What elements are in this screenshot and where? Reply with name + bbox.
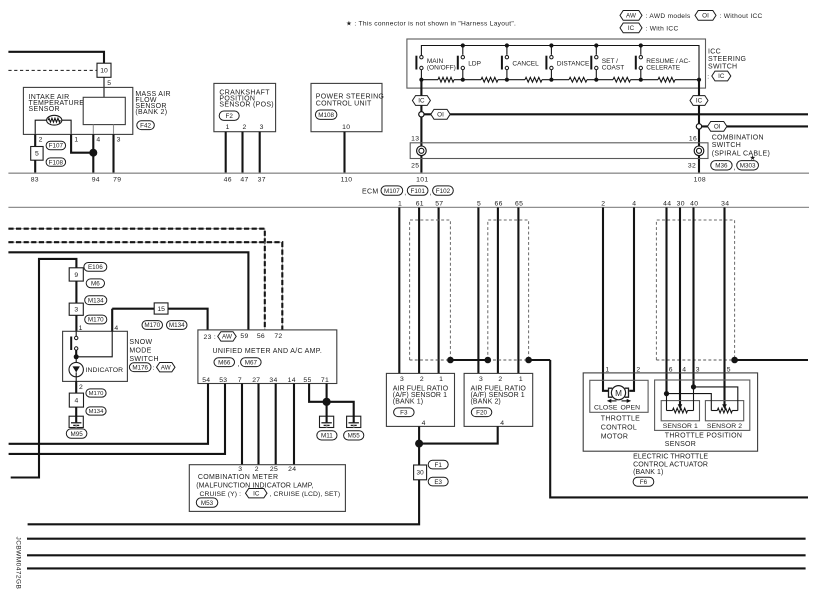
solid net segment to right edge bbox=[735, 359, 808, 361]
svg-text:SENSOR: SENSOR bbox=[665, 441, 696, 448]
svg-text:23 :: 23 : bbox=[204, 334, 217, 341]
wire meter 53 left bbox=[9, 384, 225, 454]
svg-text:4: 4 bbox=[500, 420, 504, 427]
svg-text:M108: M108 bbox=[318, 112, 334, 119]
svg-text:M134: M134 bbox=[169, 322, 185, 329]
spiral symbol right bbox=[694, 146, 704, 156]
svg-text::: : bbox=[153, 365, 155, 372]
air fuel ratio sensor bank2 box bbox=[464, 373, 533, 426]
svg-text:INDICATOR: INDICATOR bbox=[86, 367, 124, 374]
wire connector 4 to ground bbox=[75, 407, 77, 416]
wire meter 34 to combination meter 25 bbox=[275, 384, 277, 465]
svg-text:,: , bbox=[733, 164, 735, 171]
wire ECM 61 to AF1 pin 2 bbox=[418, 207, 420, 373]
snow junction bbox=[74, 354, 79, 359]
connector M66 bbox=[214, 358, 235, 367]
svg-text:M170: M170 bbox=[88, 317, 104, 324]
snow mode switch box bbox=[63, 331, 128, 381]
pot2 right tap bbox=[694, 387, 738, 411]
svg-text:M170: M170 bbox=[89, 391, 104, 397]
wire ICC resume to ECM 108 bbox=[698, 80, 700, 174]
wire ICC main to ECM 101 bbox=[420, 80, 422, 174]
switch MAIN bbox=[415, 56, 417, 70]
wire thermistor left to pin 2 bbox=[35, 120, 46, 134]
unified meter box bbox=[198, 330, 337, 384]
pot1 resistor bbox=[667, 410, 673, 412]
wire without-ICC row 2 bbox=[701, 125, 808, 127]
svg-text:4: 4 bbox=[422, 420, 426, 427]
svg-text:4: 4 bbox=[632, 201, 636, 208]
svg-text:25: 25 bbox=[270, 466, 278, 473]
svg-text:IC: IC bbox=[696, 98, 703, 105]
svg-text:THROTTLE: THROTTLE bbox=[601, 415, 640, 422]
svg-text:54: 54 bbox=[202, 377, 210, 384]
ground junction bbox=[323, 398, 331, 406]
connector M134 b bbox=[86, 407, 106, 415]
svg-text:CONTROL: CONTROL bbox=[601, 424, 637, 431]
ground M95 bbox=[69, 416, 83, 427]
svg-text:MODE: MODE bbox=[129, 348, 151, 355]
svg-text:CRUISE (Y) :: CRUISE (Y) : bbox=[200, 491, 242, 498]
svg-text:: With ICC: : With ICC bbox=[646, 26, 679, 33]
svg-text:F102: F102 bbox=[436, 188, 451, 195]
solid net segment a bbox=[450, 359, 487, 361]
svg-text:POWER STEERING: POWER STEERING bbox=[316, 94, 384, 101]
legend OI hexagon bbox=[695, 11, 716, 21]
svg-text:M55: M55 bbox=[348, 433, 361, 440]
connector F107 bbox=[46, 141, 66, 149]
svg-text:(BANK 2): (BANK 2) bbox=[471, 399, 501, 406]
motor close arrow bbox=[611, 400, 617, 402]
svg-text:72: 72 bbox=[274, 333, 282, 340]
svg-text:32: 32 bbox=[688, 162, 696, 169]
wire net descender bbox=[550, 360, 808, 497]
connector M303 bbox=[737, 161, 759, 170]
svg-text:ELECTRIC THROTTLE: ELECTRIC THROTTLE bbox=[633, 453, 708, 460]
svg-text:7: 7 bbox=[238, 377, 242, 384]
connector F108 bbox=[46, 158, 66, 166]
wire snow pin1 to contact bbox=[75, 331, 77, 336]
net junction a bbox=[447, 357, 454, 364]
junction pins 1-4 bbox=[89, 149, 97, 157]
connector M36 bbox=[711, 161, 732, 170]
connector 15 bbox=[154, 303, 168, 314]
motor symbol bbox=[611, 386, 625, 400]
svg-text:1: 1 bbox=[226, 124, 230, 131]
svg-text:M176: M176 bbox=[132, 364, 148, 371]
wire ECM 57 to AF1 pin 1 bbox=[438, 207, 440, 373]
svg-text:SNOW: SNOW bbox=[129, 339, 152, 346]
connector M176 with AW bbox=[129, 363, 151, 372]
svg-text:M170: M170 bbox=[144, 322, 160, 329]
connector OI hexagon left bbox=[431, 109, 450, 119]
svg-text:3: 3 bbox=[238, 466, 242, 473]
connector M107 bbox=[381, 186, 403, 195]
svg-text:F6: F6 bbox=[640, 479, 648, 486]
connector 10 bbox=[97, 63, 111, 77]
connector M134 a bbox=[85, 296, 107, 305]
connector F2 bbox=[219, 111, 239, 120]
svg-text:OPEN: OPEN bbox=[620, 404, 640, 411]
connector 9 bbox=[69, 268, 83, 281]
wire connector 5 to ECM 83 bbox=[34, 160, 36, 173]
electric throttle control actuator box bbox=[583, 373, 757, 451]
svg-text:SENSOR: SENSOR bbox=[29, 106, 60, 113]
connector F42 bbox=[137, 121, 155, 130]
svg-text:9: 9 bbox=[74, 272, 78, 279]
ground M11 bbox=[320, 416, 334, 427]
svg-text:59: 59 bbox=[240, 333, 248, 340]
connector F101 bbox=[407, 186, 428, 195]
svg-text:CONTROL ACTUATOR: CONTROL ACTUATOR bbox=[633, 462, 708, 469]
ICC bottom rail bbox=[421, 79, 438, 81]
connector M67 bbox=[241, 358, 262, 367]
svg-text:M95: M95 bbox=[70, 431, 83, 438]
svg-text:SENSOR 2: SENSOR 2 bbox=[707, 423, 742, 430]
svg-text:15: 15 bbox=[157, 306, 165, 313]
bottom continuation wire 2 bbox=[27, 554, 806, 556]
svg-text:110: 110 bbox=[341, 177, 353, 184]
svg-text:71: 71 bbox=[321, 377, 329, 384]
dashed net segment b bbox=[488, 359, 529, 361]
junction open circle left bbox=[419, 112, 424, 117]
wire branch to ground M55 bbox=[327, 402, 354, 416]
connector F3 bbox=[394, 408, 415, 417]
svg-text:AW: AW bbox=[161, 364, 171, 371]
svg-text:M107: M107 bbox=[384, 188, 400, 195]
svg-text:37: 37 bbox=[258, 177, 266, 184]
combination switch spiral cable box bbox=[410, 143, 708, 159]
ICC steering switch box bbox=[407, 39, 706, 88]
connector M55 bbox=[344, 431, 364, 440]
TPS pin6 junction bbox=[664, 391, 669, 396]
wire meter 7 to combination meter 3 bbox=[241, 384, 243, 465]
wire ECM 30 to TPS pin 4 wiper bbox=[679, 207, 681, 404]
pot1 left stub bbox=[666, 394, 668, 411]
svg-text:M67: M67 bbox=[245, 359, 258, 366]
thermistor symbol bbox=[47, 115, 62, 125]
svg-text:24: 24 bbox=[288, 466, 296, 473]
svg-text:1: 1 bbox=[439, 376, 443, 383]
svg-text:25: 25 bbox=[411, 162, 419, 169]
svg-text:5: 5 bbox=[477, 201, 481, 208]
svg-text:3: 3 bbox=[260, 124, 264, 131]
svg-text:M53: M53 bbox=[201, 500, 214, 507]
bottom continuation wire 1 bbox=[27, 538, 806, 540]
svg-text:46: 46 bbox=[224, 177, 232, 184]
svg-text:83: 83 bbox=[31, 177, 39, 184]
wire CKP 2 to ECM 47 bbox=[241, 132, 243, 174]
wire thermistor right to pin 1 bbox=[62, 120, 71, 134]
combination meter box bbox=[189, 465, 345, 512]
wire snow pin 4 to meter pin 23 bbox=[112, 309, 207, 330]
svg-text:M6: M6 bbox=[91, 281, 100, 288]
svg-text:OI: OI bbox=[702, 13, 709, 20]
wire AF2 pin 4 to join bbox=[419, 426, 498, 443]
svg-text:57: 57 bbox=[435, 201, 443, 208]
svg-text:F101: F101 bbox=[410, 188, 425, 195]
svg-text:E106: E106 bbox=[88, 264, 103, 271]
net junction d bbox=[731, 357, 738, 364]
svg-text:ECM: ECM bbox=[362, 189, 378, 196]
svg-text:MOTOR: MOTOR bbox=[601, 433, 628, 440]
svg-text:UNIFIED METER AND A/C AMP.: UNIFIED METER AND A/C AMP. bbox=[213, 348, 323, 355]
net junction b bbox=[485, 357, 492, 364]
svg-text:SWITCH: SWITCH bbox=[712, 142, 741, 149]
svg-text:CELERATE: CELERATE bbox=[646, 65, 680, 72]
pot2 resistor bbox=[711, 410, 717, 412]
wire indicator to pin 2 bbox=[75, 377, 77, 382]
svg-text:2: 2 bbox=[420, 376, 424, 383]
wire meter 71 to ground bbox=[326, 384, 328, 417]
svg-text:2: 2 bbox=[255, 466, 259, 473]
svg-text:55: 55 bbox=[303, 377, 311, 384]
wire dashed to meter pin 72 bbox=[8, 242, 282, 330]
snow internal wire to pin 4 bbox=[76, 331, 112, 357]
wire connector 9 to 3 bbox=[75, 281, 77, 303]
wire AF1 pin 4 down bbox=[418, 426, 420, 443]
svg-text:COMBINATION METER: COMBINATION METER bbox=[198, 474, 278, 481]
wire MAF pin 3 to ECM 79 bbox=[112, 134, 114, 173]
wire snow contact to junction bbox=[75, 350, 77, 357]
dashed net segment c bbox=[656, 359, 734, 361]
ICC top rail bbox=[421, 46, 699, 80]
svg-text:(BANK 1): (BANK 1) bbox=[393, 399, 423, 406]
wire meter pin 7 feed left route bbox=[11, 259, 77, 478]
svg-text:AW: AW bbox=[222, 334, 232, 341]
svg-text:40: 40 bbox=[690, 201, 698, 208]
switch CANCEL bbox=[505, 43, 509, 47]
wire PS 10 to ECM 110 bbox=[343, 132, 345, 174]
wire ECM 4 to motor open bbox=[629, 207, 634, 390]
svg-text:2: 2 bbox=[79, 384, 83, 391]
connector M53 bbox=[196, 498, 218, 507]
wire connector 30 left route bbox=[28, 480, 420, 525]
connector M170 c bbox=[142, 321, 163, 330]
svg-text:ICC: ICC bbox=[708, 48, 721, 55]
legend IC hexagon bbox=[620, 23, 642, 33]
svg-text:2: 2 bbox=[498, 376, 502, 383]
svg-text:IC: IC bbox=[253, 490, 260, 497]
svg-text:CONTROL UNIT: CONTROL UNIT bbox=[316, 101, 372, 108]
svg-text:2: 2 bbox=[601, 201, 605, 208]
connector E106 bbox=[84, 263, 107, 272]
svg-text:10: 10 bbox=[100, 68, 108, 75]
switch DISTANCE bbox=[549, 43, 553, 47]
sensor 2 box bbox=[705, 401, 743, 421]
svg-text:COAST: COAST bbox=[602, 65, 624, 72]
wire connector 3 to snow mode switch bbox=[75, 315, 77, 331]
net junction c bbox=[525, 357, 532, 364]
wire snow pin 4 up bbox=[111, 309, 113, 332]
svg-text:AW: AW bbox=[626, 13, 636, 20]
wire snow pin 2 to connector 4 bbox=[75, 381, 77, 393]
svg-text:F42: F42 bbox=[140, 122, 151, 129]
connector M108 bbox=[315, 110, 337, 119]
svg-text:M: M bbox=[615, 389, 622, 398]
svg-text:1: 1 bbox=[519, 376, 523, 383]
svg-text:M134: M134 bbox=[89, 409, 104, 415]
ICC rail right-end junction bbox=[697, 78, 701, 82]
wire ECM 1 to AF1 pin 3 bbox=[398, 207, 400, 373]
connector F1 bbox=[428, 460, 448, 469]
svg-text:★ : This connector is not show: ★ : This connector is not shown in "Harn… bbox=[346, 20, 516, 28]
wire ECM 44 to TPS pin 6 bbox=[665, 207, 667, 393]
spiral symbol left bbox=[417, 146, 427, 156]
svg-text:SENSOR (POS): SENSOR (POS) bbox=[219, 102, 274, 109]
snow switch contacts bbox=[70, 337, 72, 351]
svg-text:14: 14 bbox=[288, 377, 296, 384]
svg-text:30: 30 bbox=[677, 201, 685, 208]
air fuel ratio sensor bank1 box bbox=[386, 373, 454, 426]
power steering control unit box bbox=[311, 83, 382, 131]
svg-text:(BANK 2): (BANK 2) bbox=[135, 109, 167, 116]
svg-text:CLOSE: CLOSE bbox=[594, 404, 618, 411]
connector M134 c bbox=[167, 321, 188, 330]
wire thick top-left to connector 10 bbox=[8, 52, 104, 63]
svg-text:OI: OI bbox=[437, 112, 444, 119]
svg-text:94: 94 bbox=[92, 177, 100, 184]
ECM strip top line bbox=[8, 172, 809, 174]
svg-text:IC: IC bbox=[418, 98, 425, 105]
svg-text:: AWD models: : AWD models bbox=[646, 13, 692, 20]
wire meter 54 left bbox=[9, 384, 208, 444]
wire CKP 1 to ECM 46 bbox=[225, 132, 227, 174]
connector 30 bbox=[414, 465, 427, 480]
svg-text:3: 3 bbox=[400, 376, 404, 383]
legend AW hexagon bbox=[620, 11, 642, 21]
svg-text::: : bbox=[707, 74, 709, 81]
svg-text:1: 1 bbox=[74, 136, 78, 143]
bottom continuation wire 3 bbox=[27, 567, 806, 569]
svg-text:F2: F2 bbox=[226, 113, 234, 120]
svg-text:4: 4 bbox=[75, 397, 79, 404]
junction open circle right bbox=[696, 124, 701, 129]
wire junction to connector 30 bbox=[418, 444, 420, 465]
dashed route rect 2 bbox=[488, 220, 529, 360]
dashed route rect 3 bbox=[656, 220, 734, 360]
switch SET/COAST bbox=[594, 43, 598, 47]
svg-text:66: 66 bbox=[495, 201, 503, 208]
svg-text:SWITCH: SWITCH bbox=[129, 356, 158, 363]
wire ECM 40 to TPS pin 3 bbox=[692, 207, 694, 387]
svg-text:M134: M134 bbox=[88, 297, 104, 304]
svg-text:27: 27 bbox=[252, 377, 260, 384]
svg-text:5: 5 bbox=[35, 151, 39, 158]
sensor 1 box bbox=[661, 401, 699, 421]
indicator lamp bbox=[69, 362, 83, 376]
TPS pin3 junction bbox=[691, 384, 696, 389]
svg-text:65: 65 bbox=[515, 201, 523, 208]
wire dashed thin to connector 10 bbox=[8, 69, 97, 71]
wire MAF element to pin 3 bbox=[113, 125, 115, 134]
wire ECM 65 to AF2 pin 1 bbox=[517, 207, 519, 373]
wire MAF pin 2 to connector 5 bbox=[34, 134, 36, 146]
svg-text:F108: F108 bbox=[49, 159, 64, 166]
connector F6 bbox=[633, 477, 654, 486]
pot1 right stub bbox=[693, 387, 695, 411]
wire meter 27 to combination meter 2 bbox=[257, 384, 259, 465]
connector F102 bbox=[433, 186, 454, 195]
svg-text:16: 16 bbox=[689, 136, 697, 143]
switch RESUME bbox=[639, 43, 643, 47]
throttle control motor box bbox=[590, 380, 648, 412]
ICC rail resistors bbox=[438, 77, 454, 82]
svg-text:F20: F20 bbox=[476, 409, 487, 416]
svg-text:13: 13 bbox=[411, 136, 419, 143]
solid net segment b bbox=[529, 359, 551, 361]
wire meter 55 to ground join bbox=[309, 384, 327, 402]
svg-text:E3: E3 bbox=[434, 479, 442, 486]
svg-text:: Without ICC: : Without ICC bbox=[720, 13, 763, 20]
connector M170 b bbox=[86, 389, 106, 397]
wire ECM 66 to AF2 pin 2 bbox=[497, 207, 499, 373]
ground M55 symbol bbox=[347, 416, 361, 427]
svg-text:F3: F3 bbox=[400, 409, 408, 416]
svg-text:1: 1 bbox=[398, 201, 402, 208]
connector M6 bbox=[86, 279, 104, 288]
dashed net segment a bbox=[410, 359, 451, 361]
svg-text:61: 61 bbox=[416, 201, 424, 208]
wire MAF pin 4 to ECM 94 bbox=[92, 134, 94, 173]
svg-text:3: 3 bbox=[479, 376, 483, 383]
svg-text:47: 47 bbox=[240, 177, 248, 184]
wire MAF pin 1 to junction bbox=[71, 134, 93, 152]
svg-text:OI: OI bbox=[714, 124, 721, 131]
svg-text:2: 2 bbox=[39, 136, 43, 143]
svg-text:3: 3 bbox=[117, 136, 121, 143]
crankshaft position sensor box bbox=[214, 83, 276, 131]
svg-text:M66: M66 bbox=[218, 359, 231, 366]
svg-text:IC: IC bbox=[628, 25, 635, 32]
AF ground junction bbox=[415, 440, 423, 448]
connector M95 bbox=[66, 429, 87, 438]
svg-text:(BANK 1): (BANK 1) bbox=[633, 469, 663, 476]
connector OI hexagon right bbox=[708, 122, 727, 132]
svg-text:34: 34 bbox=[269, 377, 277, 384]
wire dashed to meter pin 56 bbox=[8, 229, 264, 330]
svg-text:STEERING: STEERING bbox=[708, 56, 746, 63]
svg-text:COMBINATION: COMBINATION bbox=[712, 134, 764, 141]
connector M11 bbox=[317, 431, 337, 440]
svg-text:(ON/OFF): (ON/OFF) bbox=[427, 65, 456, 72]
svg-text:2: 2 bbox=[242, 124, 246, 131]
svg-text:DISTANCE: DISTANCE bbox=[557, 61, 590, 68]
svg-text:F1: F1 bbox=[435, 462, 443, 469]
svg-text:M303: M303 bbox=[740, 163, 756, 170]
wire MAF element to pin 4 bbox=[92, 125, 94, 134]
svg-text:, CRUISE (LCD), SET): , CRUISE (LCD), SET) bbox=[270, 491, 341, 498]
connector IC hexagon right bbox=[690, 96, 708, 106]
svg-text:IC: IC bbox=[718, 73, 725, 80]
svg-text:10: 10 bbox=[342, 124, 350, 131]
svg-text:5: 5 bbox=[107, 80, 111, 87]
mass air flow sensor box bbox=[23, 87, 132, 134]
svg-text:34: 34 bbox=[721, 201, 729, 208]
connector IC hexagon left bbox=[412, 96, 430, 106]
svg-text:56: 56 bbox=[257, 333, 265, 340]
svg-text:LDP: LDP bbox=[468, 61, 481, 68]
svg-text:M36: M36 bbox=[715, 163, 728, 170]
svg-text:F107: F107 bbox=[49, 143, 64, 150]
connector 4 bbox=[69, 393, 83, 407]
MAF inner element box bbox=[83, 97, 125, 124]
svg-text:30: 30 bbox=[417, 470, 425, 477]
svg-text:M11: M11 bbox=[321, 433, 333, 440]
svg-text:4: 4 bbox=[96, 136, 100, 143]
svg-text:101: 101 bbox=[416, 177, 428, 184]
wire meter 14 to combination meter 24 bbox=[293, 384, 295, 465]
